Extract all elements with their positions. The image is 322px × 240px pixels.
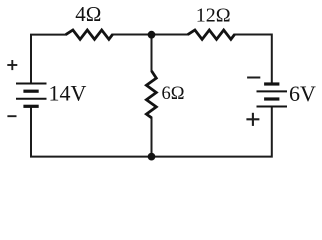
wire middle branch bottom stub <box>151 118 153 157</box>
wire top-right segment <box>235 35 272 84</box>
battery V1 plate short thick <box>23 90 38 93</box>
battery V1 14V plate long (+ top) <box>16 83 47 85</box>
wire bottom-right segment <box>152 107 272 156</box>
wire top-middle-left segment <box>113 34 152 36</box>
node junction dot bottom <box>148 153 156 161</box>
svg-text:6Ω: 6Ω <box>162 84 185 104</box>
resistor 4Ω <box>66 30 113 39</box>
battery V2 plate long (+ bottom) <box>257 106 288 108</box>
plus sign right battery <box>246 113 259 126</box>
minus sign left battery <box>7 115 16 117</box>
svg-text:14V: 14V <box>49 80 87 105</box>
wire middle branch top stub <box>151 35 153 71</box>
battery V1 plate long <box>16 98 47 100</box>
resistor 6Ω <box>146 71 156 118</box>
battery V2 6V plate short thick (- top) <box>264 82 279 85</box>
battery V2 plate long <box>257 90 288 92</box>
svg-text:12Ω: 12Ω <box>196 5 231 27</box>
battery V2 plate short thick <box>264 97 279 100</box>
svg-text:6V: 6V <box>289 81 316 106</box>
minus sign right battery <box>247 77 260 79</box>
battery V1 plate short thick (- bottom) <box>23 105 38 108</box>
node junction dot top <box>148 31 156 39</box>
wire top-middle-right segment <box>152 34 188 36</box>
wire top-left segment <box>31 35 66 84</box>
svg-text:4Ω: 4Ω <box>75 2 101 26</box>
wire bottom-left segment <box>31 108 152 157</box>
resistor 12Ω <box>188 30 235 39</box>
plus sign left battery <box>7 60 17 70</box>
